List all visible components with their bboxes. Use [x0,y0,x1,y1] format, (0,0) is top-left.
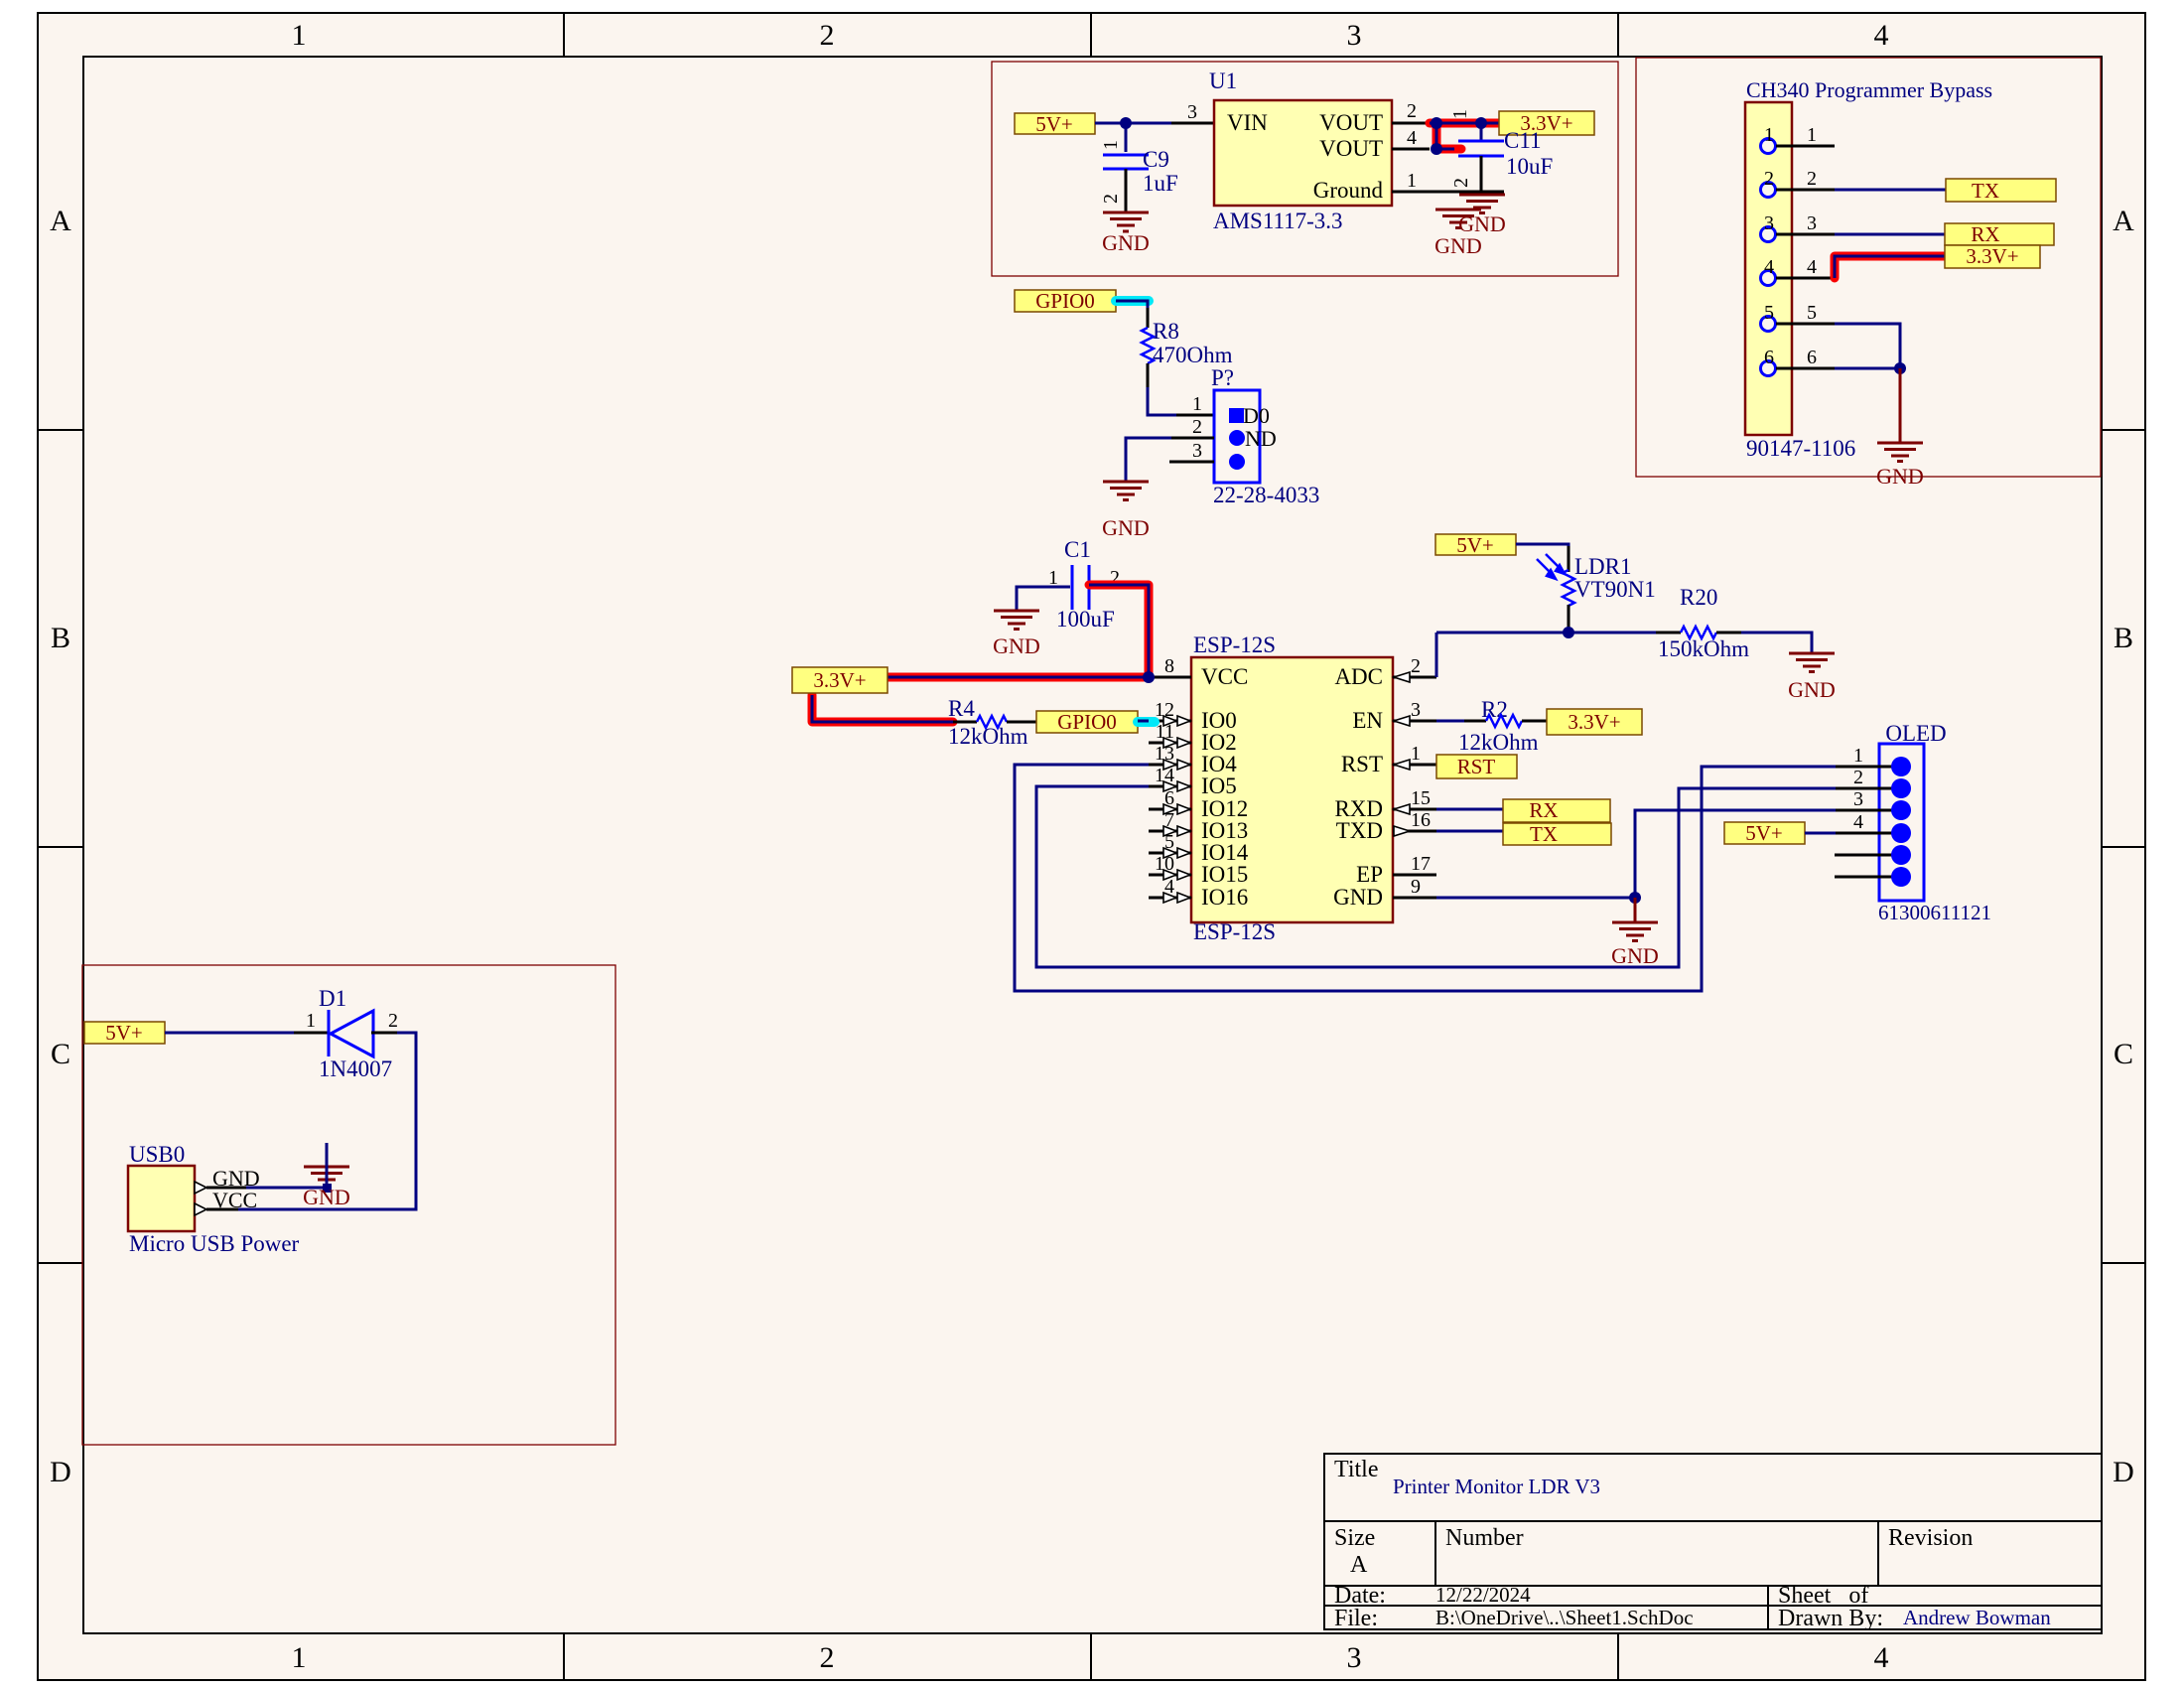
pin 5 stub [1776,323,1835,326]
capacitor C1 plates [1072,565,1089,610]
J1 pin 4 circle [1761,271,1776,286]
svg-text:1: 1 [1192,393,1202,415]
node junction LDR/R20 [1563,627,1574,638]
svg-text:RST: RST [1341,752,1383,776]
OLED pin 6 stub [1835,876,1901,879]
svg-text:2: 2 [1100,194,1122,204]
pin 4 stub [1776,277,1835,280]
wire pin5 down to pin6 net [1835,324,1900,368]
svg-text:VIN: VIN [1227,110,1268,135]
highlighted 3.3V+ wire (red) [1430,123,1499,149]
power port 5V+ (USB) [84,1021,165,1045]
svg-text:6: 6 [1764,347,1774,368]
svg-text:D: D [2113,1456,2134,1488]
svg-text:1: 1 [1100,140,1122,150]
P? pin3 pad [1229,454,1245,470]
ground stem [1899,368,1902,443]
pin 2 stub [1776,189,1835,192]
connector OLED body [1879,744,1924,901]
svg-text:D: D [50,1456,71,1488]
svg-text:ADC: ADC [1334,664,1383,689]
svg-text:5V+: 5V+ [105,1021,143,1045]
svg-text:1N4007: 1N4007 [319,1056,392,1081]
svg-text:B: B [2114,622,2133,654]
svg-text:4: 4 [1764,256,1774,278]
ground symbol P? pin2 [1103,482,1149,500]
svg-text:1: 1 [1411,743,1421,765]
J1 pin 1 circle [1761,139,1776,154]
svg-text:15: 15 [1411,787,1431,809]
USB GND pin stub [206,1187,246,1190]
svg-text:6: 6 [1807,347,1817,368]
connector P? body [1214,390,1260,483]
svg-text:150kOhm: 150kOhm [1658,636,1749,661]
svg-text:16: 16 [1411,809,1431,831]
pin 17 stub EP [1393,874,1436,877]
svg-text:17: 17 [1411,853,1431,875]
J1 pin 6 circle [1761,361,1776,376]
svg-text:4: 4 [1874,19,1889,52]
svg-text:3: 3 [1853,788,1863,810]
svg-text:C9: C9 [1143,147,1169,172]
region box CH340 [1636,58,2101,477]
svg-text:IO16: IO16 [1201,885,1248,910]
pin 9 stub GND [1393,897,1436,900]
wire USB GND to ground [246,1187,327,1190]
wire 5V+ to LDR1 [1516,544,1569,548]
photoresistor LDR1 (vertical zigzag) [1563,570,1574,606]
wire 5V+ to OLED pin4 [1805,832,1836,835]
svg-text:VOUT: VOUT [1319,110,1383,135]
power port 5V+ (OLED) [1724,821,1805,845]
wire pin4 to 3.3V+ (navy core) [1835,256,1945,278]
wire D1 to USB VCC [238,1033,416,1209]
svg-text:R20: R20 [1680,585,1717,610]
svg-text:22-28-4033: 22-28-4033 [1213,483,1319,507]
module ESP-12S body [1191,657,1393,922]
svg-text:1: 1 [1807,124,1817,146]
ground stem ESP [1634,898,1637,922]
OLED pin 3 stub [1836,809,1901,812]
capacitor C11 pin2 stub [1480,156,1483,192]
OLED pin 5 stub [1835,854,1901,857]
svg-text:C1: C1 [1064,537,1091,562]
highlighted 3.3V+ wire C1 to VCC (red) [1089,585,1149,677]
svg-text:File:: File: [1334,1606,1378,1631]
svg-text:5: 5 [1764,302,1774,324]
wire pin6 to ground [1835,367,1900,370]
svg-text:1: 1 [1449,109,1471,119]
GPIO0 net highlight (cyan) [1116,296,1149,306]
svg-text:R8: R8 [1153,319,1179,344]
svg-text:VCC: VCC [1201,664,1248,689]
wire 5V+ to U1 VIN [1095,122,1171,125]
pin 4 stub U1 VOUT [1392,148,1430,151]
svg-text:ND: ND [1245,426,1277,451]
svg-text:1: 1 [292,19,307,52]
wire 5V+ to D1 [165,1032,294,1035]
svg-text:470Ohm: 470Ohm [1153,343,1233,367]
svg-text:VT90N1: VT90N1 [1574,577,1656,602]
highlighted 3.3V+ rail (red) [887,673,1149,682]
svg-text:1: 1 [1853,745,1863,767]
svg-text:5V+: 5V+ [1745,821,1783,845]
capacitor C11 plates [1458,141,1504,156]
svg-text:3: 3 [1764,212,1774,234]
wire ADC vertical [1435,633,1438,677]
wire ADC horizontal [1436,632,1656,634]
ground symbol R20 [1789,653,1835,672]
wire R2 to 3.3V+ [1522,720,1547,723]
svg-text:1: 1 [1407,170,1417,192]
pin 10 stub IO15 [1149,874,1191,877]
svg-text:CH340 Programmer Bypass: CH340 Programmer Bypass [1746,77,1992,102]
node junction VOUT4 corner [1431,143,1442,155]
zone labels columns [292,19,1889,1674]
ground symbol under C11 [1459,195,1505,213]
pin 2 stub ADC [1393,676,1436,679]
pin 6 stub [1776,367,1835,370]
wire RXD to RX [1436,808,1503,811]
OLED pin 4 pad [1891,823,1911,843]
svg-text:2: 2 [1853,767,1863,788]
input arrow RXD [1394,804,1410,814]
net label TX [1946,179,2056,203]
svg-text:B:\OneDrive\..\Sheet1.SchDoc: B:\OneDrive\..\Sheet1.SchDoc [1435,1606,1694,1629]
capacitor C9 plates [1103,155,1149,169]
pin 2 stub U1 VOUT [1392,122,1430,125]
svg-text:C11: C11 [1504,128,1542,153]
svg-text:2: 2 [820,1641,835,1674]
wire ESP GND pin9 [1436,897,1635,900]
svg-text:U1: U1 [1209,69,1237,93]
svg-text:10uF: 10uF [1506,154,1553,179]
svg-text:2: 2 [1192,416,1202,438]
pin 8 stub VCC [1149,676,1191,679]
svg-text:1: 1 [1764,124,1774,146]
node junction USB ground [323,1184,332,1193]
svg-text:1: 1 [1048,567,1058,589]
svg-text:12/22/2024: 12/22/2024 [1435,1583,1531,1607]
svg-text:100uF: 100uF [1056,607,1115,632]
pin 12 stub IO0 [1149,720,1191,723]
svg-text:2: 2 [388,1010,398,1032]
svg-text:3.3V+: 3.3V+ [1966,244,2018,268]
J1 pin 2 circle [1761,183,1776,198]
svg-text:Title: Title [1334,1457,1378,1482]
svg-text:GND: GND [1611,943,1659,968]
pin 3 stub U1 VIN [1171,122,1214,125]
svg-text:2: 2 [1807,168,1817,190]
wire P? pin2 to ground [1126,438,1171,482]
svg-text:TXD: TXD [1336,818,1383,843]
node junction 5V+/C9 [1120,117,1132,129]
svg-text:B: B [51,622,70,654]
node junction GND [1629,892,1641,904]
power port 3.3V+ (R2) [1547,709,1642,735]
svg-text:Drawn By:: Drawn By: [1778,1606,1883,1631]
highlighted 3.3V+ drop to R4 (red) [812,695,953,722]
LDR light arrows [1537,554,1565,579]
svg-text:AMS1117-3.3: AMS1117-3.3 [1213,209,1343,233]
svg-text:GPIO0: GPIO0 [1057,710,1117,734]
svg-text:EP: EP [1356,862,1383,887]
connector J1 90147-1106 body [1745,102,1792,435]
svg-text:ESP-12S: ESP-12S [1193,919,1276,944]
svg-text:TX: TX [1972,179,1999,203]
svg-text:90147-1106: 90147-1106 [1746,436,1855,461]
svg-text:Andrew Bowman: Andrew Bowman [1903,1606,2051,1629]
wire VOUT to 3.3V+ (navy core) [1430,123,1499,149]
svg-text:3: 3 [1187,101,1197,123]
net label RST [1436,755,1517,778]
svg-text:Revision: Revision [1888,1525,1973,1551]
OLED pin 5 pad [1891,845,1911,865]
pin 16 stub TXD [1393,830,1436,833]
wire pin3 to RX [1835,233,1945,236]
resistor R8 (vertical zigzag) [1142,328,1154,363]
input arrow EN [1394,716,1410,726]
power port 3.3V+ (regulator output) [1499,111,1594,135]
pin 7 stub IO13 [1149,830,1191,833]
wire 3.3V+ rail (navy core) [887,676,1149,679]
pin 3 stub [1776,233,1835,236]
node junction VOUT2 branch [1431,117,1442,129]
wire IO4 loop (to OLED pin1) [1015,765,1836,991]
pin 1 stub [1776,145,1835,148]
pin 3 stub EN [1393,720,1436,723]
diode D1 symbol [329,1010,373,1056]
connector USB0 body [128,1166,195,1231]
region box USB power [82,965,615,1445]
svg-text:GND: GND [303,1185,350,1209]
svg-text:Printer Monitor LDR V3: Printer Monitor LDR V3 [1393,1475,1600,1498]
svg-text:1: 1 [292,1641,307,1674]
J1 pin 3 circle [1761,227,1776,242]
output arrow TXD [1394,826,1410,836]
P? pin1 pad (square) [1229,408,1244,423]
wire EN to R2 [1436,720,1464,723]
svg-text:GND: GND [1333,885,1383,910]
svg-text:D1: D1 [319,986,346,1011]
svg-text:VOUT: VOUT [1319,136,1383,161]
zone tick marks bottom [564,1633,1618,1680]
pin 11 stub IO2 [1149,742,1191,745]
OLED pin 1 stub [1836,766,1901,769]
OLED pin 1 pad [1891,757,1911,776]
svg-text:RX: RX [1971,222,1999,246]
svg-text:A: A [2113,205,2134,237]
svg-text:9: 9 [1411,876,1421,898]
net label TX (ESP) [1503,822,1611,846]
wire C1 pin1 to ground [1017,587,1070,611]
svg-text:Ground: Ground [1313,178,1384,203]
OLED pin 2 pad [1891,778,1911,798]
svg-text:OLED: OLED [1885,721,1946,746]
ground symbol USB (inverted) [304,1167,349,1180]
svg-text:A: A [1350,1552,1368,1578]
svg-text:P?: P? [1211,365,1234,390]
resistor R2 (zigzag) [1486,715,1522,727]
svg-text:R4: R4 [948,696,975,721]
ground symbol under C1 [994,611,1039,630]
capacitor C9 pin2 stub [1125,169,1128,212]
svg-text:USB0: USB0 [129,1142,185,1167]
resistor R20 (zigzag) [1681,627,1716,638]
J1 pin 5 circle [1761,317,1776,332]
power port 5V+ (LDR) [1435,533,1516,557]
wire TXD to TX [1436,830,1503,833]
svg-text:1: 1 [306,1010,316,1032]
node junction C11 tap [1475,117,1487,129]
resistor R4 (zigzag) [953,721,977,724]
svg-text:ESP-12S: ESP-12S [1193,633,1276,657]
P? pin2 pad [1229,430,1245,446]
pin 1 stub D1 [294,1032,328,1035]
title block texts [1334,1457,1973,1631]
svg-text:Micro USB Power: Micro USB Power [129,1231,300,1256]
net label GPIO0 (ESP) [1036,710,1138,734]
USB VCC pin stub [206,1208,238,1211]
svg-text:Number: Number [1445,1525,1524,1551]
wire GPIO0 to IO0 [1138,720,1149,723]
svg-text:2: 2 [820,19,835,52]
capacitor C9 pin1 wire [1125,123,1128,152]
svg-text:GND: GND [1102,230,1150,255]
wire R8 to P? pin1 [1147,363,1150,387]
regulator U1 body [1214,100,1392,206]
svg-text:12kOhm: 12kOhm [1458,730,1539,755]
region box power supply [992,62,1618,276]
svg-text:Size: Size [1334,1525,1375,1551]
pin 1 stub RST [1393,764,1436,767]
net label RX (ESP) [1503,798,1610,822]
svg-text:4: 4 [1853,811,1863,833]
OLED pin 4 stub [1836,832,1901,835]
svg-text:1uF: 1uF [1143,171,1178,196]
power port 5V+ (regulator input) [1015,112,1095,136]
zone tick marks right [2102,430,2145,1263]
node junction VCC [1143,671,1155,683]
svg-text:EN: EN [1352,708,1383,733]
OLED pin 6 pad [1891,867,1911,887]
svg-text:IO15: IO15 [1201,862,1248,887]
pin 13 stub IO4 [1149,764,1191,767]
svg-text:5V+: 5V+ [1456,533,1494,557]
capacitor C11 pin1 wire [1480,123,1483,141]
title block frame [1324,1454,2102,1629]
pin 15 stub RXD [1393,808,1436,811]
pin 6 stub IO12 [1149,808,1191,811]
wire GPIO0 to R8 [1116,301,1148,310]
zone tick marks left [38,430,83,1263]
zone tick marks top [564,13,1618,57]
svg-text:LDR1: LDR1 [1574,554,1632,579]
svg-text:3: 3 [1347,19,1362,52]
svg-text:RX: RX [1529,798,1558,822]
svg-text:2: 2 [1407,100,1417,122]
svg-text:RST: RST [1457,755,1496,778]
net label RX [1945,222,2054,246]
pin names right column [1333,664,1383,910]
svg-text:A: A [50,205,71,237]
svg-text:GND: GND [993,633,1040,658]
svg-text:3: 3 [1807,212,1817,234]
svg-text:GND: GND [1876,464,1924,489]
wire pin2 to TX [1835,189,1946,192]
power port 3.3V+ (CH340) [1945,244,2040,268]
svg-text:3: 3 [1411,699,1421,721]
ground symbol (second, offset) [1435,210,1481,228]
svg-text:GND: GND [1102,515,1150,540]
svg-text:5: 5 [1807,302,1817,324]
svg-text:3: 3 [1192,440,1202,462]
wire R20 to ground [1716,632,1741,634]
svg-text:3: 3 [1347,1641,1362,1674]
wire LDR1 to ADC node [1568,605,1570,633]
svg-text:GND: GND [1788,677,1836,702]
svg-text:D0: D0 [1243,403,1270,428]
wire 3.3V+ drop (navy core) [812,695,953,722]
svg-text:3.3V+: 3.3V+ [813,668,866,692]
pin 2 stub P? [1171,437,1214,440]
ground symbol CH340 [1877,443,1923,462]
wire C1 pin2 (navy core) [1089,585,1149,677]
wire IO5 loop (to OLED pin2) [1036,786,1836,967]
input arrow RST [1394,760,1410,770]
USB VCC pin arrow [195,1203,206,1215]
svg-text:61300611121: 61300611121 [1878,901,1991,924]
svg-text:C: C [51,1038,70,1070]
node junction pin5/pin6 [1894,362,1906,374]
wire GND up to OLED pin3 [1635,810,1836,898]
svg-text:C: C [2114,1038,2133,1070]
pin 5 stub IO14 [1149,852,1191,855]
pin names left column [1201,664,1249,910]
pin 1 stub U1 Ground [1392,191,1504,194]
power port 3.3V+ (ESP) [792,667,887,693]
svg-text:IO5: IO5 [1201,774,1237,798]
svg-text:GPIO0: GPIO0 [1035,289,1095,313]
svg-text:2: 2 [1450,178,1472,188]
USB GND pin arrow [195,1182,206,1194]
OLED pin 2 stub [1836,787,1901,790]
zone labels rows [50,205,2134,1488]
ground symbol ESP GND [1612,922,1658,941]
ground symbol under C9 [1103,212,1149,231]
svg-text:TX: TX [1530,822,1558,846]
svg-text:4: 4 [1874,1641,1889,1674]
svg-text:12kOhm: 12kOhm [948,724,1028,749]
svg-text:4: 4 [1407,127,1417,149]
pin 4 stub IO16 [1149,897,1191,900]
net label GPIO0 (top) [1015,289,1116,313]
svg-text:4: 4 [1807,256,1817,278]
pin 14 stub IO5 [1149,785,1191,788]
pin 3 stub P? [1169,461,1214,464]
OLED pin 3 pad [1891,800,1911,820]
svg-text:8: 8 [1164,655,1174,677]
pin 1 stub P? [1176,414,1214,417]
svg-text:GND: GND [1434,233,1482,258]
svg-text:3.3V+: 3.3V+ [1568,710,1620,734]
ground stem USB [326,1143,329,1188]
svg-text:2: 2 [1411,655,1421,677]
input arrow ADC [1394,672,1410,682]
highlighted 3.3V+ wire (red) to pin4 [1835,256,1945,278]
bidirectional arrows left pins [1163,716,1190,903]
svg-text:2: 2 [1764,168,1774,190]
